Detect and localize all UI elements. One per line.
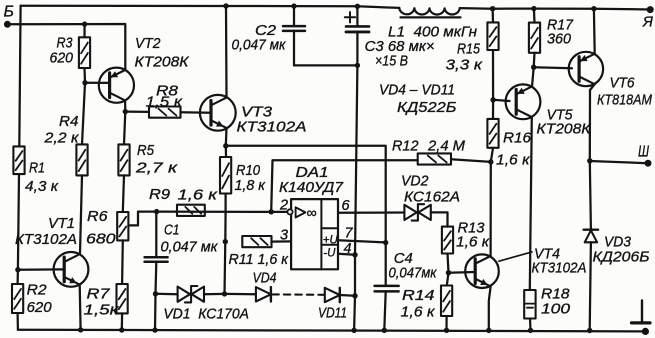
wire R16 to R12 node bbox=[491, 148, 493, 162]
svg-text:КТ208К: КТ208К bbox=[537, 121, 592, 138]
svg-text:620: 620 bbox=[27, 299, 53, 316]
svg-text:R12: R12 bbox=[392, 138, 419, 155]
wire C1 to VD1 bbox=[156, 293, 178, 296]
svg-text:КТ3102А: КТ3102А bbox=[532, 260, 587, 277]
transistor VT6 bbox=[569, 52, 653, 109]
wire minus bus down to pin4 node bbox=[355, 65, 357, 254]
resistor R14 bbox=[401, 286, 453, 321]
wire pin6 output bbox=[338, 211, 404, 214]
svg-text:R9: R9 bbox=[149, 186, 171, 203]
node VT1 emitter bottom bbox=[78, 327, 83, 332]
svg-text:КТ3102А: КТ3102А bbox=[237, 119, 307, 136]
svg-text:R14: R14 bbox=[402, 287, 435, 304]
svg-text:680: 680 bbox=[86, 231, 116, 248]
wire VT4 base bbox=[449, 271, 476, 274]
wire VT5 collector down to R18 bbox=[530, 117, 532, 290]
svg-text:1,5 к: 1,5 к bbox=[146, 94, 183, 111]
node VD3 bottom bbox=[587, 328, 592, 333]
terminal bottom right bbox=[642, 328, 649, 335]
svg-text:0,047 мк: 0,047 мк bbox=[232, 37, 287, 54]
resistor R7 bbox=[84, 284, 128, 319]
wire VT5 emitter bbox=[532, 67, 534, 87]
wire VT4 collector up bbox=[489, 162, 491, 256]
wire R4 to VT1 collector bbox=[80, 175, 82, 252]
svg-text:КД522Б: КД522Б bbox=[397, 99, 457, 116]
wire R4 top bbox=[82, 83, 85, 145]
diode VD3 bbox=[584, 230, 650, 266]
transistor VT4 bbox=[465, 246, 586, 289]
wire R8 to VT3 base bbox=[181, 111, 212, 114]
svg-text:∞: ∞ bbox=[307, 206, 317, 222]
svg-text:C1: C1 bbox=[164, 222, 180, 239]
node +U / C4 top bbox=[383, 240, 388, 245]
svg-text:VD11: VD11 bbox=[318, 305, 347, 322]
wire C1 node to bottom rail bbox=[154, 294, 157, 330]
wire pin7 +U bbox=[338, 240, 386, 242]
wire to terminal Ш bbox=[590, 161, 648, 163]
wire feedback to R12 bbox=[271, 160, 418, 212]
node VT2 collector / R5 / R8 bbox=[123, 109, 128, 114]
resistor R4 bbox=[43, 113, 87, 175]
svg-text:R4: R4 bbox=[59, 113, 79, 130]
svg-text:КТ3102А: КТ3102А bbox=[15, 231, 77, 248]
svg-text:VD4: VD4 bbox=[253, 270, 277, 287]
node C1 bottom / VD1 left bbox=[153, 291, 158, 296]
resistor R9 bbox=[149, 186, 218, 216]
svg-text:R11 1,6 к: R11 1,6 к bbox=[229, 251, 289, 268]
wire pin4 down to diode row bbox=[354, 255, 356, 296]
wire R14 top stub bbox=[447, 273, 449, 286]
capacitor C2 bbox=[232, 6, 306, 65]
wire R15 top stub bbox=[491, 9, 494, 23]
svg-text:7: 7 bbox=[345, 226, 354, 242]
svg-text:0,047 мк: 0,047 мк bbox=[161, 239, 219, 256]
svg-text:2,7 к: 2,7 к bbox=[135, 160, 178, 177]
svg-text:1,6 к: 1,6 к bbox=[496, 152, 530, 169]
wire R5 top bbox=[124, 112, 125, 145]
node R18 bottom bbox=[528, 328, 533, 333]
wire R5 to R6 bbox=[123, 175, 124, 212]
node VT5 base bbox=[490, 97, 495, 102]
node pin4 line bottom bbox=[351, 328, 356, 333]
svg-text:VT6: VT6 bbox=[610, 75, 635, 92]
svg-text:Ш: Ш bbox=[638, 143, 650, 160]
node VT5 emitter / VT6 base bbox=[531, 65, 536, 70]
node Ш junction bbox=[587, 158, 592, 163]
svg-text:VT2: VT2 bbox=[135, 35, 161, 52]
wire bottom ground rail bbox=[18, 330, 646, 332]
node diode row right bbox=[352, 293, 357, 298]
wire R8 left bbox=[125, 110, 149, 113]
terminal Б bbox=[4, 4, 14, 28]
svg-text:-U: -U bbox=[323, 248, 336, 260]
wire VT6 base bbox=[534, 67, 572, 68]
resistor R16 bbox=[487, 119, 531, 169]
svg-text:R7: R7 bbox=[87, 286, 111, 303]
wire left rail to R2 bbox=[16, 270, 19, 284]
ground symbol bbox=[632, 301, 651, 323]
node R14 bottom bbox=[444, 328, 449, 333]
wire VT6 collector to node Ш bbox=[590, 84, 595, 161]
resistor R1 bbox=[13, 146, 58, 195]
wire VT2 collector to node bbox=[124, 100, 126, 111]
node R12 / R16 / VT4 collector bbox=[488, 159, 493, 164]
node R11 left bbox=[223, 239, 228, 244]
wire VT4 emitter to bottom rail bbox=[489, 287, 491, 331]
wire dashed VD4 to VD11 bbox=[272, 293, 323, 295]
wire VT2 base bbox=[85, 82, 110, 84]
wire R3 top stub bbox=[83, 24, 85, 37]
wire node to VD4 bbox=[225, 293, 256, 296]
resistor R2 bbox=[12, 282, 52, 317]
resistor R15 bbox=[446, 22, 499, 73]
svg-text:К140УД7: К140УД7 bbox=[279, 179, 344, 196]
node C4 bottom bbox=[382, 328, 387, 333]
diode VD11 bbox=[318, 288, 347, 322]
svg-text:Я: Я bbox=[642, 15, 653, 31]
svg-text:1,8 к: 1,8 к bbox=[235, 177, 266, 194]
wire R2 to bottom rail bbox=[16, 313, 19, 330]
resistor R17 bbox=[529, 17, 574, 53]
wire feedback VT3 emitter to +U node bbox=[226, 146, 386, 243]
resistor R13 bbox=[442, 220, 490, 254]
resistor R6 bbox=[86, 208, 128, 248]
node top rail junctions bbox=[223, 3, 596, 11]
wire left rail upper bbox=[19, 6, 20, 147]
wire R12 to R16 node bbox=[451, 159, 491, 162]
wire VD11 to pin4 node bbox=[340, 294, 355, 297]
zener VD2 bbox=[401, 173, 460, 221]
svg-text:100: 100 bbox=[541, 301, 571, 318]
wire R14 to bottom rail bbox=[445, 316, 447, 330]
svg-text:VT1: VT1 bbox=[48, 215, 75, 232]
wire diode row right to bottom rail bbox=[353, 296, 356, 331]
diode VD4 bbox=[253, 270, 277, 302]
svg-text:R1: R1 bbox=[29, 160, 45, 177]
svg-text:0,047мк: 0,047мк bbox=[389, 265, 438, 282]
wire R13 to VT4 base node bbox=[448, 254, 449, 273]
wire R18 to bottom rail bbox=[529, 319, 532, 331]
wire R15 node to R16 bbox=[492, 100, 494, 119]
svg-text:КД206Б: КД206Б bbox=[593, 249, 650, 266]
transistor VT5 bbox=[506, 84, 592, 137]
capacitor C1 bbox=[145, 212, 219, 294]
wire VD1 to node bbox=[204, 293, 225, 296]
node R9 right / C1 top bbox=[154, 209, 159, 214]
terminal Ш bbox=[638, 143, 652, 166]
svg-text:R16: R16 bbox=[503, 130, 532, 147]
transistor VT3 bbox=[200, 95, 307, 136]
svg-text:R6: R6 bbox=[87, 208, 108, 225]
svg-text:2,2 к: 2,2 к bbox=[43, 130, 79, 147]
wire R6 tap bbox=[128, 212, 156, 226]
wire R7 to bottom rail bbox=[121, 313, 124, 330]
node VT4 base bbox=[446, 270, 451, 275]
node R7 bottom bbox=[119, 327, 124, 332]
svg-text:4,3 к: 4,3 к bbox=[25, 178, 59, 195]
svg-text:КС162А: КС162А bbox=[404, 189, 460, 206]
wire VD3 to bottom rail bbox=[590, 242, 591, 330]
label VD4-VD11 bbox=[379, 82, 457, 117]
wire R6 to R7 bbox=[121, 240, 124, 284]
wire VT3 collector to top rail bbox=[225, 6, 228, 98]
svg-text:VD1 КС170А: VD1 КС170А bbox=[163, 306, 249, 323]
node R3 top bbox=[82, 21, 87, 26]
node diode row center bbox=[222, 291, 227, 296]
wire R3 to VT2 base node bbox=[83, 68, 86, 83]
resistor R18 bbox=[524, 286, 570, 319]
svg-text:1,6 к: 1,6 к bbox=[178, 187, 218, 204]
resistor R10 bbox=[220, 157, 266, 194]
terminal Я bbox=[642, 6, 654, 31]
zener VD1 bbox=[163, 286, 249, 323]
svg-text:6: 6 bbox=[342, 198, 351, 214]
svg-text:360: 360 bbox=[547, 31, 572, 48]
wire VT3 emitter to node bbox=[225, 128, 228, 146]
wire R17 to VT5 emitter node bbox=[533, 53, 536, 67]
svg-text:1,6 к: 1,6 к bbox=[401, 304, 436, 321]
svg-text:R2: R2 bbox=[27, 282, 48, 299]
wire top supply rail (right section) bbox=[460, 8, 651, 9]
wire VT6 emitter to top rail bbox=[593, 9, 596, 54]
wire VD2 to R13 bbox=[431, 212, 448, 226]
inductor L1 bbox=[388, 8, 478, 41]
svg-text:1,6 к: 1,6 к bbox=[456, 234, 490, 251]
wire R10 bottom stub bbox=[224, 194, 226, 212]
node VT3 emitter bbox=[223, 143, 228, 148]
resistor R3 bbox=[50, 35, 91, 69]
capacitor C4 bbox=[375, 243, 438, 331]
wire R11 left stub bbox=[224, 211, 227, 241]
svg-text:2: 2 bbox=[279, 198, 288, 214]
svg-text:2,4 М: 2,4 М bbox=[427, 138, 465, 155]
svg-text:КТ208К: КТ208К bbox=[135, 54, 190, 71]
wire R11 to pin3 bbox=[272, 240, 292, 242]
svg-text:1,5к: 1,5к bbox=[84, 302, 120, 319]
capacitor C3 bbox=[345, 6, 435, 69]
svg-text:620: 620 bbox=[50, 50, 74, 67]
svg-text:КТ818АМ: КТ818АМ bbox=[597, 92, 652, 109]
svg-text:3,3 к: 3,3 к bbox=[446, 57, 483, 74]
svg-text:3: 3 bbox=[280, 228, 288, 244]
wire R10 top stub bbox=[225, 146, 227, 157]
node VT2 base bbox=[82, 80, 87, 85]
node feedback tap pin2 bbox=[269, 209, 274, 214]
wire VT1 base bbox=[18, 268, 64, 271]
resistor R11 bbox=[229, 236, 289, 268]
wire VT4 label pointer bbox=[499, 252, 532, 261]
node C1 bottom rail bbox=[152, 327, 157, 332]
wire R17 top stub bbox=[533, 9, 536, 23]
wire R11 node down to diode row bbox=[223, 242, 226, 294]
svg-text:R5: R5 bbox=[137, 142, 154, 159]
wire C2 C3 bottoms join bbox=[294, 64, 357, 66]
node VT1 base bbox=[15, 267, 20, 272]
node C3 bottom junction bbox=[355, 63, 360, 68]
transistor VT1 bbox=[15, 215, 88, 287]
wire Ш node down to VD3 bbox=[590, 161, 591, 229]
wire VT5 base bbox=[493, 100, 509, 101]
resistor R12 bbox=[392, 138, 465, 165]
svg-text:×15 В: ×15 В bbox=[375, 53, 408, 70]
op-amp DA1 bbox=[279, 164, 354, 269]
wire from terminal Б to VT2 emitter bbox=[7, 24, 125, 70]
svg-text:VD2: VD2 bbox=[401, 173, 429, 190]
wire VT1 emitter to bottom rail bbox=[79, 285, 82, 330]
svg-text:+U: +U bbox=[323, 234, 339, 246]
svg-text:VD4 – VD11: VD4 – VD11 bbox=[379, 82, 455, 99]
wire left rail middle bbox=[18, 174, 19, 270]
wire inverting input line bbox=[157, 210, 288, 213]
wire R15 to VT5 base node bbox=[492, 50, 494, 100]
transistor VT2 bbox=[99, 35, 190, 103]
resistor R5 bbox=[118, 142, 178, 177]
wire top supply rail (left section) bbox=[21, 6, 400, 8]
svg-text:Б: Б bbox=[4, 4, 14, 21]
node pin4 junction bbox=[352, 252, 357, 257]
resistor R8 bbox=[146, 83, 183, 118]
svg-text:R15: R15 bbox=[457, 41, 480, 58]
wire pin4 -U bbox=[338, 254, 355, 255]
node VT4 emitter bottom bbox=[486, 328, 491, 333]
